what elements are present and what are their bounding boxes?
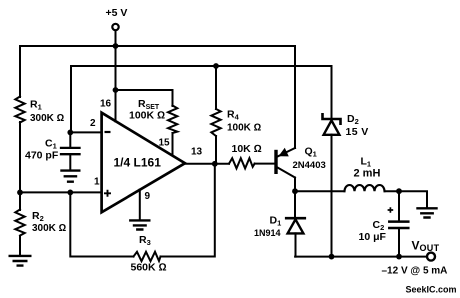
node: junction +5V on top rail: [113, 43, 119, 49]
wire: top rail (+5V rail) y=46: [20, 45, 295, 47]
diode D2 (zener, 15V): [323, 114, 341, 123]
wire: C2 bottom to output rail: [398, 228, 400, 257]
wire: R4 top lead: [215, 66, 217, 109]
resistor RSET: [168, 106, 177, 134]
resistor R1: [15, 97, 24, 123]
wire: D1 anode to bottom rail: [295, 233, 297, 256]
svg-text:2: 2: [90, 118, 96, 129]
wire: bottom output rail: [295, 256, 427, 258]
wire: R4 bottom to output node: [215, 136, 217, 164]
C2 polarity plus: [388, 207, 394, 213]
wire: C2 top lead: [398, 191, 400, 221]
svg-text:1/4 L161: 1/4 L161: [114, 156, 162, 170]
wire: rail2 right drop to D2: [331, 66, 333, 119]
node: junction pin16 / RSET branch: [113, 87, 119, 93]
svg-text:16: 16: [100, 99, 112, 110]
node: C2 bottom junction: [396, 254, 402, 260]
wire: R2 top lead: [19, 192, 21, 210]
ground (R2): [10, 256, 31, 266]
op-amp plus input mark: [104, 190, 111, 197]
resistor R3: [134, 252, 161, 261]
svg-text:300K Ω: 300K Ω: [32, 223, 67, 234]
wire: left column to R1: [19, 46, 21, 97]
wire: D2 anode to bottom rail: [331, 135, 333, 257]
wire: pin 9 to ground: [139, 190, 141, 220]
wire: node to right ground: [399, 191, 427, 207]
wire: node to C1 top plate: [69, 132, 71, 147]
capacitor C1: [61, 148, 80, 154]
op-amp U1 1/4 L161: [102, 113, 185, 213]
op-amp minus input mark: [105, 131, 111, 133]
svg-text:13: 13: [191, 147, 203, 158]
ground (output): [418, 208, 437, 217]
svg-text:10K Ω: 10K Ω: [232, 143, 262, 155]
wire: R1 bottom to pin1 row: [19, 122, 21, 192]
VOUT terminal: [427, 253, 435, 261]
wire: rail2 left drop to C1/pin2 node: [70, 66, 72, 132]
svg-text:300K Ω: 300K Ω: [30, 113, 65, 124]
wire: op-amp output pin 13: [185, 163, 229, 165]
capacitor C2: [389, 222, 408, 228]
node: C1 / pin2 junction: [67, 130, 73, 136]
wire: pin 1 input row: [20, 191, 102, 193]
wire: collector row to L1: [295, 190, 345, 192]
diode D1 1N914: [294, 191, 296, 217]
wire: C1 bottom to ground: [69, 154, 71, 169]
node: D2 bottom junction: [329, 254, 335, 260]
wire: R3 branch down from pin1 row: [70, 192, 133, 256]
resistor R4: [211, 109, 220, 136]
svg-text:2N4403: 2N4403: [293, 160, 326, 171]
svg-text:V: V: [412, 239, 420, 253]
wire: +5V column down to op-amp pin 16: [115, 46, 117, 122]
wire: pin 2 input: [70, 131, 101, 133]
svg-text:+5 V: +5 V: [106, 7, 128, 19]
svg-text:9: 9: [145, 191, 151, 202]
wire: Q1 collector down to node: [294, 178, 296, 192]
node: collector/D1/L1 junction: [292, 188, 298, 194]
node: junction R3 branch on pin1 row: [67, 190, 73, 196]
wire: 10K to Q1 base: [255, 163, 275, 165]
svg-text:1N914: 1N914: [254, 228, 281, 238]
wire: Q1 emitter to +5V rail: [294, 46, 296, 148]
svg-text:–12 V @ 5 mA: –12 V @ 5 mA: [382, 266, 448, 277]
ground (C1): [62, 171, 80, 182]
wire: L1 to output node: [385, 190, 400, 192]
inductor L1: [345, 185, 385, 191]
wire: R3 right to output node column: [161, 164, 215, 257]
node: L1/C2/ground junction: [396, 188, 402, 194]
node: junction R4 top on rail2: [213, 63, 219, 69]
svg-text:10 μF: 10 μF: [359, 231, 387, 243]
svg-text:560K Ω: 560K Ω: [131, 262, 167, 274]
wire: R2 bottom to ground: [19, 236, 21, 255]
node: junction R1/R2 on pin1 row: [17, 190, 23, 196]
svg-text:SeekIC.com: SeekIC.com: [406, 284, 457, 294]
resistor R2: [15, 210, 24, 236]
svg-text:OUT: OUT: [420, 243, 440, 253]
svg-text:100K Ω: 100K Ω: [227, 123, 262, 134]
svg-text:15 V: 15 V: [346, 126, 369, 138]
svg-text:470 pF: 470 pF: [25, 150, 59, 162]
svg-text:2 mH: 2 mH: [354, 168, 381, 180]
svg-text:15: 15: [159, 138, 171, 149]
wire: junction to RSET top: [116, 90, 173, 106]
resistor 10K: [229, 158, 255, 168]
ground (pin 9): [130, 220, 149, 229]
svg-text:100K Ω: 100K Ω: [129, 110, 165, 122]
wire: RSET bottom to pin 15: [172, 133, 174, 156]
+5 V supply terminal: [112, 24, 118, 30]
node: output junction pin13/R4/R3/10K: [212, 161, 218, 167]
wire: +5V terminal to top rail: [115, 30, 117, 46]
wire: second rail y=66: [71, 65, 332, 67]
svg-text:1: 1: [94, 177, 100, 188]
transistor Q1 2N4403: [274, 152, 277, 173]
